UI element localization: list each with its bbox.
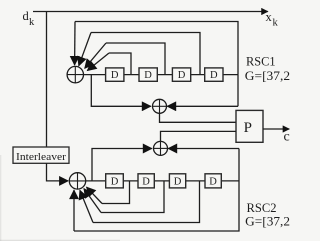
svg-text:D: D [210, 70, 218, 81]
wire RSC1 diag 2 into adder A1 [85, 43, 106, 68]
svg-text:D: D [111, 177, 119, 188]
svg-text:x: x [266, 10, 273, 24]
wire RSC2 feedback tap after D3 [93, 181, 200, 223]
svg-text:D: D [142, 177, 150, 188]
wire RSC2 feedback outer [74, 149, 239, 232]
svg-text:Interleaver: Interleaver [16, 151, 66, 163]
wire RSC2 vertical arrow into adder A2 [73, 190, 75, 231]
wire P output arrow [263, 128, 289, 130]
wire RSC2 branch up to parity adder A4 left input [92, 149, 152, 181]
wire interleaver to adder A2 [47, 163, 69, 181]
svg-text:D: D [174, 177, 182, 188]
svg-text:c: c [284, 130, 290, 145]
wire RSC2 diag 2 into adder A2 [84, 189, 101, 213]
svg-text:D: D [178, 70, 186, 81]
wire RSC2 right input into adder A4 [168, 148, 239, 150]
register D3 RSC1 [172, 68, 190, 81]
svg-text:P: P [244, 120, 252, 136]
wire RSC1 feedback tap after D2 [106, 43, 165, 75]
wire RSC2 diag 3 into adder A2 [80, 190, 93, 222]
wire RSC1 diag 1 into adder A1 [79, 33, 91, 66]
svg-text:k: k [273, 18, 279, 29]
svg-text:G=[37,2: G=[37,2 [245, 213, 290, 228]
P box (puncturing) [236, 110, 263, 142]
wire RSC2 feedback tap after D1 [102, 181, 130, 204]
label x_k [266, 10, 279, 29]
wire RSC1 branch down to parity adder A3 left input [91, 75, 150, 107]
register D4 RSC1 [205, 68, 223, 81]
register D1 RSC2 [106, 174, 124, 188]
wire RSC2 shift register chain [86, 180, 239, 182]
label d_k [23, 9, 36, 28]
wire systematic d_k to x_k [33, 11, 268, 13]
interleaver box [13, 147, 69, 163]
wire RSC2 diag 1 into adder A2 [87, 187, 102, 203]
adder A1 (RSC1 input XOR) [67, 66, 83, 82]
wire main vertical input to interleaver [46, 12, 48, 148]
svg-text:RSC1: RSC1 [246, 54, 276, 69]
wire RSC1 feedback outer horizontal [75, 22, 238, 75]
wire RSC1 shift register chain [84, 74, 239, 76]
svg-text:G=[37,2: G=[37,2 [245, 68, 290, 83]
adder A3 (RSC1 parity XOR) [153, 99, 167, 113]
scan artifact left edge [0, 155, 2, 241]
wire parity y1 to P box [160, 113, 237, 122]
scan artifact bottom edge [0, 239, 120, 241]
register D2 RSC1 [139, 68, 157, 81]
wire RSC1 vertical arrow into adder A1 [74, 22, 76, 65]
adder A2 (RSC2 input XOR) [69, 173, 85, 189]
wire RSC1 right input into adder A3 [167, 105, 238, 107]
register D3 RSC2 [169, 174, 185, 188]
register D1 RSC1 [106, 68, 124, 81]
svg-text:D: D [209, 177, 217, 188]
wire RSC1 feedback tap after D3 [91, 33, 200, 75]
register D2 RSC2 [138, 174, 154, 188]
svg-text:k: k [29, 17, 35, 28]
register D4 RSC2 [205, 174, 221, 188]
wire parity y2 to P box [161, 131, 237, 141]
wire RSC1 chain end down to parity adder A3 [237, 75, 239, 107]
adder A4 (RSC2 parity XOR) [154, 141, 168, 155]
wire RSC2 feedback tap after D2 [101, 181, 164, 213]
svg-text:D: D [144, 70, 152, 81]
svg-text:D: D [111, 70, 119, 81]
wire RSC1 feedback tap after D1 [109, 53, 131, 75]
wire RSC1 diag 3 into adder A1 [87, 53, 109, 71]
